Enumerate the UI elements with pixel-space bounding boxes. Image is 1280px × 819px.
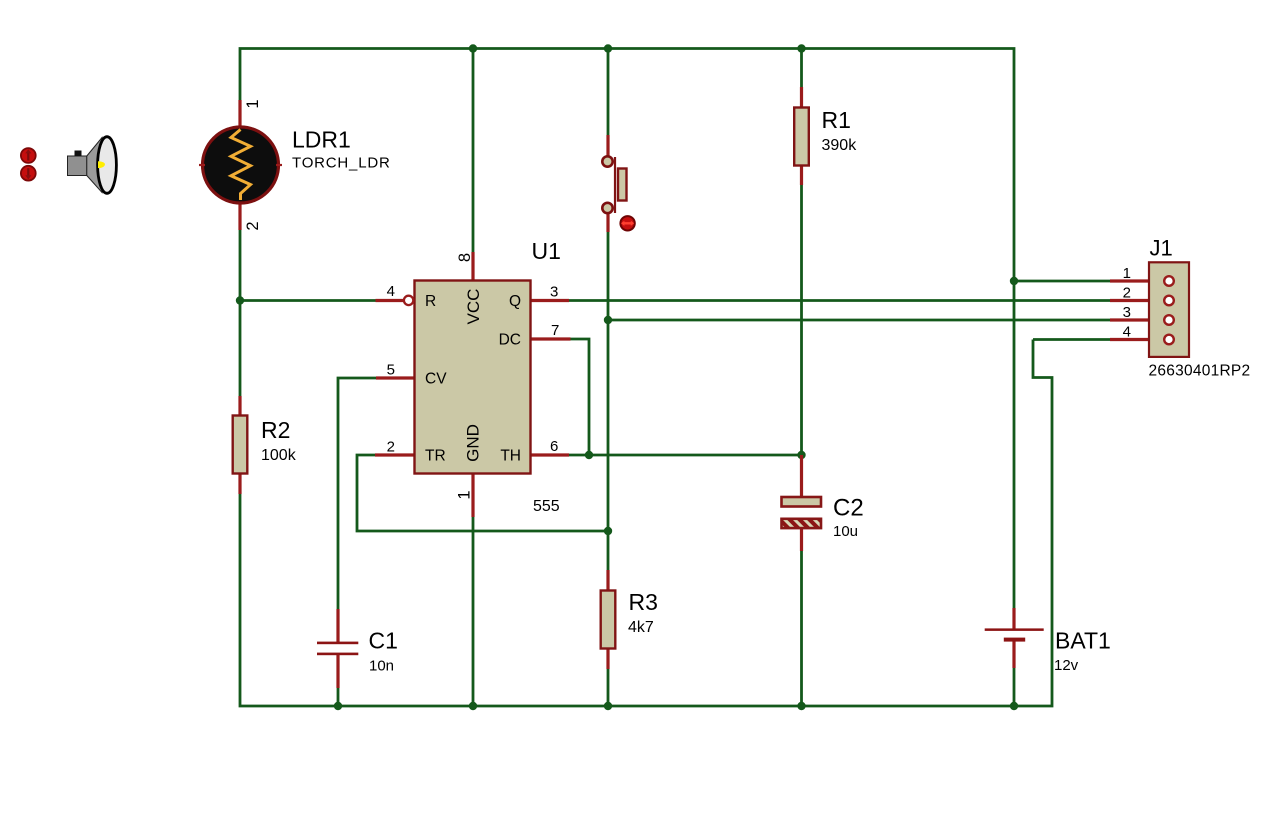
wire LDR1 pin 1 stub [238,100,241,127]
connector J1 pin 3 circle [1164,315,1174,325]
pushbutton cap body [618,169,627,201]
wire LDR1 pin 2 stub [238,203,241,230]
wire U1 GND pin 1 stub [471,473,474,517]
wire VCC pin8 riser [472,49,475,253]
svg-text:390k: 390k [822,137,858,154]
wire button bottom to R3 [607,232,610,570]
svg-text:GND: GND [464,424,483,462]
svg-text:BAT1: BAT1 [1055,628,1111,654]
wire R1 top [800,49,803,88]
LDR1 left tick [199,164,205,166]
indicator dot down-arrow [21,166,36,181]
LDR1 photoresistor circle [203,127,279,203]
wire top power rail with end drops [240,49,1014,609]
wire C2 bottom to ground rail [800,551,803,706]
wire R2 pin stubs [238,396,241,416]
node junction top rail button [604,44,612,52]
pushbutton terminal circle bottom [602,203,612,213]
svg-text:C1: C1 [369,627,398,653]
svg-text:CV: CV [425,371,447,388]
wire J1 pin1 row from battery rail [1014,280,1110,283]
wire J1 pin3 row from button net [608,319,1110,322]
wire U1 CV pin 5 stub [376,376,415,379]
node junction button net J1 pin3 tap [604,316,612,324]
svg-text:DC: DC [499,332,521,349]
op-amp U1 555 timer body [415,281,531,474]
svg-text:4: 4 [1123,324,1131,341]
svg-text:5: 5 [387,362,395,379]
wire R1 pin stubs [800,87,803,108]
svg-text:R1: R1 [822,107,851,133]
wire R1 bottom to TH node [800,185,803,475]
node junction ground rail C1 [334,702,342,710]
capacitor C1 bottom plate [317,653,358,656]
svg-text:U1: U1 [532,238,561,264]
svg-text:LDR1: LDR1 [292,127,351,153]
wire Q output row to J1 pin2 [569,299,1110,302]
resistor R3 body [601,591,616,649]
svg-text:6: 6 [550,438,558,455]
svg-text:8: 8 [456,253,474,262]
svg-text:1: 1 [456,490,474,499]
wire C1 bottom to ground rail [337,688,340,706]
node junction J1 pin1 tap [1010,277,1018,285]
wire node A reset row: LDR/R2 tap to R pin [240,299,376,302]
svg-text:J1: J1 [1150,236,1173,261]
speaker magnet body [68,156,87,176]
wire U1 VCC pin 8 stub [471,252,474,281]
svg-text:4k7: 4k7 [628,619,654,636]
wire LDR bottom to R2 top [239,230,242,396]
node junction TH/C2 [797,451,805,459]
speaker diaphragm ellipse [98,137,117,194]
wire DC pin to TH node [571,339,590,455]
node junction reset row left [236,296,244,304]
speaker cone trapezoid [87,138,102,193]
svg-text:VCC: VCC [464,289,483,325]
svg-text:3: 3 [1123,304,1131,321]
wire button top drop [607,49,610,136]
capacitor C2 top plate [782,497,822,507]
connector J1 pin 4 circle [1164,335,1174,345]
node junction ground rail C2 [797,702,805,710]
svg-text:1: 1 [1123,265,1131,282]
wire C1 pin stubs [336,609,339,642]
svg-text:Q: Q [509,293,521,310]
svg-text:100k: 100k [261,447,297,464]
svg-text:2: 2 [1123,285,1131,302]
wire TR loop [357,455,608,531]
pushbutton interactive marker (red arrow dot) [620,216,634,230]
wire J1 pin stubs [1110,279,1163,282]
svg-text:3: 3 [550,284,558,301]
indicator dot up-arrow [21,148,36,163]
svg-text:555: 555 [533,498,560,515]
svg-text:TR: TR [425,448,446,465]
battery BAT1 long plate [985,628,1044,631]
svg-text:26630401RP2: 26630401RP2 [1149,362,1251,379]
pushbutton terminal circle top [602,156,612,166]
wire C2 pin stubs [800,455,803,497]
svg-text:R: R [425,293,436,310]
svg-text:10u: 10u [833,523,858,540]
svg-text:12v: 12v [1054,657,1079,674]
wire U1 TH pin 6 stub [530,453,569,456]
wire U1 DC pin 7 stub [530,337,571,340]
svg-text:2: 2 [387,439,395,456]
wire R3 bottom to ground rail [607,669,610,706]
svg-text:7: 7 [551,322,559,339]
capacitor C2 bottom plate (polarity hatched) [782,519,822,528]
node junction ground rail GND pin [469,702,477,710]
wire TH row to C2 top [569,454,802,457]
node junction TR loop to R3 [604,527,612,535]
svg-text:10n: 10n [369,657,394,674]
wire button pin stubs [606,135,609,157]
wire battery bottom to ground rail [1013,668,1016,706]
wire J1 pin4 row [1033,338,1110,341]
wire GND pin1 drop [472,517,475,706]
capacitor C1 top plate [317,642,358,645]
node junction top rail VCC [469,44,477,52]
LDR1 right tick [276,164,282,166]
svg-text:TH: TH [500,448,521,465]
wire U1 TR pin 2 stub [375,453,415,456]
speaker sounder icon [68,137,117,194]
resistor R2 body [233,416,248,474]
battery BAT1 short plate [1004,638,1025,642]
resistor R1 body [794,108,809,166]
svg-text:TORCH_LDR: TORCH_LDR [292,155,391,172]
wire U1 reset pin 4 stub [376,299,404,302]
wire R3 pin stubs [606,570,609,591]
speaker terminal block [75,151,82,157]
svg-text:C2: C2 [833,495,864,522]
speaker yellow dust cap [98,161,105,168]
svg-text:1: 1 [244,99,262,108]
node junction ground rail R3 [604,702,612,710]
node junction DC/TH [585,451,593,459]
svg-text:R2: R2 [261,417,290,443]
svg-text:4: 4 [387,283,395,300]
connector J1 pin 1 circle [1164,276,1174,286]
svg-text:R3: R3 [629,589,658,615]
node junction top rail R1 [797,44,805,52]
connector J1 pin 2 circle [1164,296,1174,306]
pushbutton actuator shaft [614,157,616,213]
U1 reset pin inversion bubble [404,296,413,305]
connector J1 body [1149,262,1189,357]
svg-text:2: 2 [244,221,262,230]
wire R2 bottom, ground rail, riser to J1 pin4 [240,340,1052,707]
node junction ground rail battery [1010,702,1018,710]
wire battery pin stubs [1012,608,1015,629]
wire CV to C1 [338,378,376,609]
wire U1 Q pin 3 stub [530,299,569,302]
LDR1 zigzag element [231,130,251,201]
